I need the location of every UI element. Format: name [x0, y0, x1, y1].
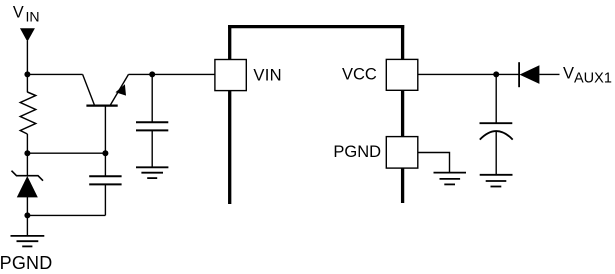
wire diode to VAUX1: [539, 73, 559, 75]
node dot bottom left: [24, 212, 30, 218]
node dot base node: [102, 150, 108, 156]
wire zener to bottom node: [26, 197, 28, 236]
zener diode D2 cathode bar: [12, 171, 44, 181]
ground under C1: [136, 167, 168, 178]
wire C1 bottom lead: [151, 130, 153, 167]
IC U1 outline left: [228, 25, 231, 204]
transistor Q1 collector diagonal: [83, 74, 95, 105]
node dot VCC node: [493, 71, 499, 77]
node dot emitter node: [149, 71, 155, 77]
pin box VCC: [386, 59, 418, 90]
transistor Q1: [83, 74, 129, 105]
svg-text:VIN: VIN: [253, 66, 282, 85]
input supply arrow VIN: [20, 28, 35, 41]
wire C2 bottom lead: [104, 184, 106, 215]
node dot base node left: [24, 150, 30, 156]
transistor Q1 emitter arrow: [116, 84, 127, 95]
resistor R1: [20, 92, 35, 134]
wire PGND pin to ground: [418, 153, 450, 173]
svg-text:PGND: PGND: [333, 143, 381, 161]
capacitor C2: [89, 176, 121, 184]
wire emitter to VIN pin: [129, 73, 215, 75]
diode D1 cathode bar: [518, 62, 520, 87]
transistor Q1 base bar: [86, 104, 117, 106]
node dot VIN rail: [24, 71, 30, 77]
svg-text:PGND: PGND: [0, 253, 52, 273]
wire VCC pin to diode: [418, 73, 519, 75]
capacitor C1: [136, 122, 168, 130]
wire VIN rail vertical top: [26, 41, 28, 92]
wire base node horizontal: [27, 152, 105, 154]
IC U1 outline top: [228, 25, 404, 28]
pin box PGND: [386, 137, 418, 169]
wire collector horizontal: [27, 73, 82, 75]
svg-text:VCC: VCC: [342, 65, 377, 83]
wire base lead vertical: [104, 106, 106, 177]
ground under C3: [480, 175, 513, 187]
wire C3 top lead: [495, 74, 497, 123]
pin box VIN: [215, 60, 246, 91]
capacitor C3 polarized: [480, 123, 513, 139]
wire bottom horizontal: [27, 214, 105, 216]
IC U1 outline right: [401, 25, 404, 203]
node VIN label: [13, 4, 40, 25]
diode D1 triangle: [520, 65, 540, 84]
wire C3 bottom lead: [495, 131, 497, 175]
wire C1 top lead: [151, 74, 153, 122]
ground under PGND pin: [434, 173, 467, 185]
transistor Q1 emitter diagonal: [110, 74, 129, 105]
zener diode D2 triangle: [17, 176, 38, 197]
ground PGND left: [11, 236, 45, 247]
wire resistor bottom to zener: [26, 134, 28, 176]
